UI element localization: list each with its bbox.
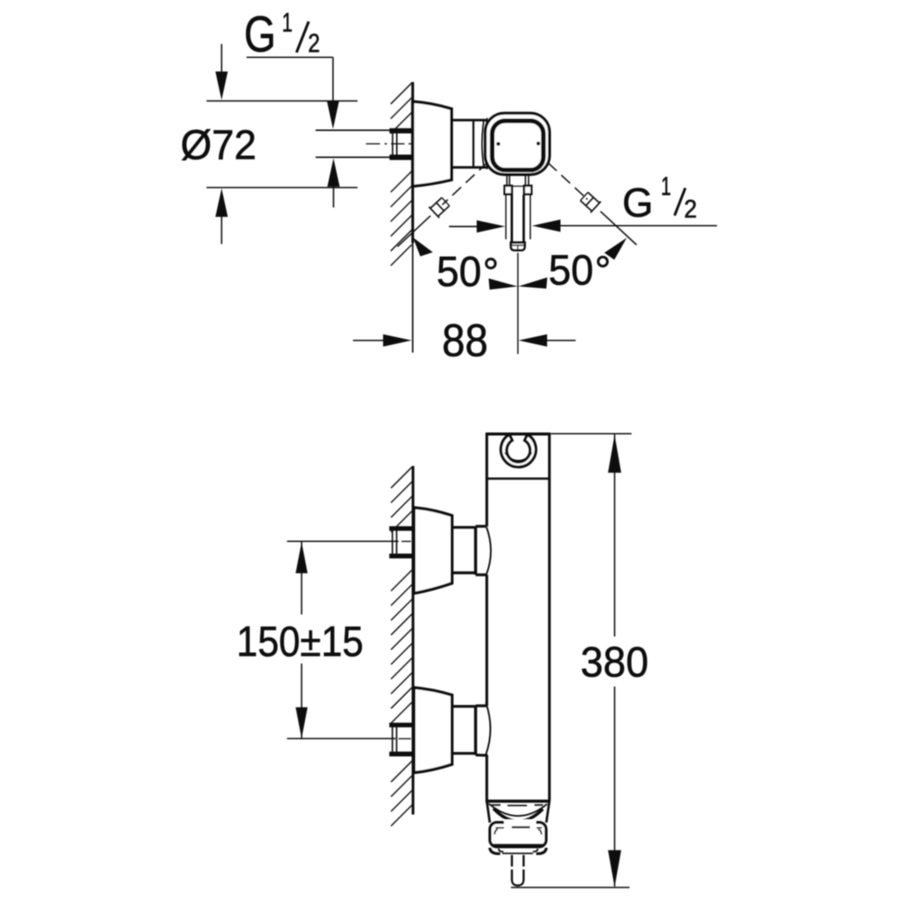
svg-text:G: G — [244, 6, 276, 63]
arrow to inlet thread (down) — [327, 101, 339, 130]
dim 88 line left — [353, 339, 385, 341]
dim 380 arrow top — [608, 435, 621, 473]
wall hatching (bottom view) — [391, 467, 412, 826]
svg-text:G: G — [622, 179, 653, 225]
wall hatching (top view) — [391, 83, 412, 266]
svg-text:Ø72: Ø72 — [181, 121, 257, 168]
upper supply pipe stub — [389, 526, 412, 558]
outlet block top dashes — [504, 820, 536, 827]
dim 150 arrow bottom — [296, 707, 308, 738]
dim 380 extension line top — [551, 433, 632, 435]
dim 380 extension line bottom — [511, 886, 630, 888]
dim 150 extension line bottom — [287, 738, 396, 740]
supply pipe stub (top view) — [390, 128, 413, 160]
outlet pipe — [511, 855, 513, 867]
lever collar — [505, 186, 532, 195]
dim 380 arrow bottom — [608, 850, 621, 887]
dim 150 extension line top — [287, 540, 399, 542]
upper escutcheon — [414, 508, 452, 594]
lever rod end cap — [511, 243, 525, 251]
dim Ø72 extension line top — [207, 100, 358, 102]
lower body bulge — [486, 703, 491, 755]
outlet thread arrows (G 1/2) — [449, 226, 478, 228]
leader line G 1/2 top-left — [247, 56, 334, 58]
lower supply pipe stub — [389, 723, 412, 757]
wall section line (top view) — [411, 82, 414, 243]
handle pivot dot right — [536, 142, 540, 146]
body collar curves (top view) — [482, 120, 484, 169]
svg-text:380: 380 — [581, 639, 649, 687]
outlet block bottom bar — [493, 844, 544, 847]
upper union nut — [474, 526, 477, 575]
outlet pipe top — [502, 852, 533, 854]
arrow to inlet thread (up) — [327, 158, 339, 187]
dim 88 line right — [519, 334, 548, 346]
dim 380 line — [614, 435, 616, 637]
lower escutcheon — [414, 688, 452, 773]
outlet block feet — [490, 848, 501, 854]
supply pipe outline (top view) — [316, 129, 390, 131]
svg-text:150±15: 150±15 — [237, 618, 364, 666]
body bottom separator — [486, 800, 551, 803]
outlet taper sides — [487, 801, 490, 822]
angle arrow at right diagonal (right 50°) — [604, 238, 627, 260]
lower pipe centreline — [399, 738, 412, 740]
wall section line (bottom view) — [412, 466, 415, 815]
escutcheon rosette (top view) — [413, 102, 452, 187]
union fitting left — [429, 196, 451, 218]
angle arc arrows at centreline — [489, 278, 518, 289]
handle pivot dot left — [496, 142, 500, 146]
svg-text:1: 1 — [282, 8, 293, 38]
outlet block — [490, 822, 546, 846]
wall extension line below (top view) — [412, 243, 414, 353]
svg-text:2: 2 — [684, 195, 697, 223]
dim 150 line — [301, 542, 303, 615]
outlet bowl thin arc — [489, 804, 547, 816]
upper union cylinder — [452, 526, 475, 529]
dim Ø72 arrow bottom — [215, 188, 227, 217]
union fitting right — [579, 191, 601, 213]
angle arrow at wall vertex (left 50°) — [413, 237, 433, 256]
upper body bulge — [486, 527, 490, 575]
label G 1/2 (inlet, top-left) — [244, 6, 320, 63]
outlet bowl highlights — [492, 804, 501, 806]
svg-text:1: 1 — [661, 171, 671, 201]
lever neck lines — [507, 175, 529, 186]
handle outer contour (top view) — [485, 113, 549, 174]
supply pipe centreline (top view) — [366, 143, 380, 145]
svg-text:50: 50 — [549, 246, 594, 294]
handle inner contour (top view) — [492, 121, 543, 170]
swivel line left (dashed+solid) — [444, 162, 489, 204]
outlet bowl thick arc — [494, 809, 543, 822]
lever rod inner lines — [511, 195, 513, 243]
dim Ø72 extension line bottom — [207, 187, 358, 189]
label G 1/2 (outlet, right) — [622, 171, 697, 225]
lower union nut — [474, 706, 477, 755]
outlet centreline (top view) — [517, 253, 519, 354]
swivel line right (dashed+solid) — [548, 163, 585, 197]
valve body (top view) — [452, 120, 488, 167]
dim Ø72 arrow top — [221, 44, 223, 75]
dim 150 arrow top — [296, 542, 308, 573]
outlet block inner corners — [495, 829, 498, 834]
lever rod outer lines — [505, 195, 507, 240]
svg-text:2: 2 — [308, 28, 320, 58]
svg-text:50: 50 — [437, 248, 482, 296]
upper pipe centreline — [402, 540, 412, 542]
body section line — [487, 478, 550, 480]
lower union cylinder — [452, 705, 475, 708]
shower hook (horseshoe) — [501, 435, 536, 468]
svg-text:88: 88 — [442, 315, 488, 366]
mixer body outline — [486, 434, 551, 801]
